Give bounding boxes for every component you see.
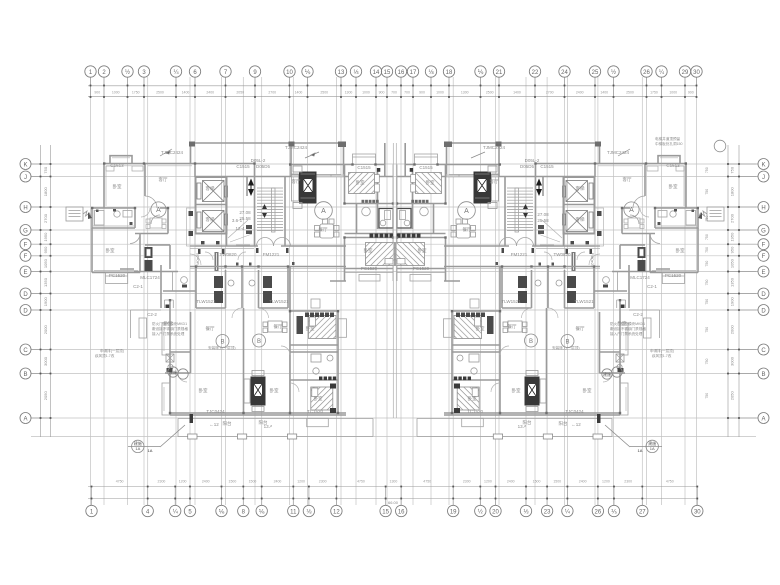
svg-text:C2-1: C2-1 — [647, 284, 657, 289]
wing interior walls — [190, 267, 346, 416]
svg-text:卧室: 卧室 — [106, 247, 115, 254]
kitchen fixtures bottom — [214, 276, 272, 303]
svg-text:13: 13 — [338, 70, 345, 76]
svg-text:1000: 1000 — [669, 91, 677, 95]
svg-text:2400: 2400 — [576, 91, 584, 95]
svg-text:15: 15 — [382, 510, 389, 516]
svg-text:900: 900 — [379, 91, 385, 95]
wing TV wardrobe dark — [251, 377, 266, 406]
svg-text:750: 750 — [43, 166, 48, 173]
svg-text:C1513: C1513 — [666, 163, 680, 168]
svg-text:4750: 4750 — [357, 480, 365, 484]
svg-text:卧室: 卧室 — [669, 183, 678, 190]
svg-text:中梯板处孔洞150: 中梯板处孔洞150 — [655, 141, 683, 146]
stair flight — [255, 164, 286, 247]
expansion joint — [393, 143, 396, 418]
svg-text:TLW1521: TLW1521 — [269, 299, 289, 304]
svg-text:66.00: 66.00 — [388, 500, 399, 505]
svg-text:1500: 1500 — [553, 480, 561, 484]
svg-text:11: 11 — [290, 510, 297, 516]
A1 kitchen fixtures — [145, 247, 153, 271]
svg-text:1500: 1500 — [533, 480, 541, 484]
svg-text:½: ½ — [611, 69, 616, 76]
svg-text:C1515: C1515 — [357, 165, 371, 170]
svg-text:1A: 1A — [135, 446, 140, 451]
svg-text:1750: 1750 — [132, 91, 140, 95]
svg-text:30: 30 — [693, 70, 700, 76]
entrance dark post — [190, 414, 194, 423]
svg-text:K: K — [23, 162, 27, 168]
A1 wardrobe top — [106, 166, 143, 171]
svg-text:19: 19 — [450, 510, 457, 516]
svg-text:E: E — [23, 270, 27, 276]
svg-text:F: F — [24, 254, 28, 260]
svg-text:卧室: 卧室 — [476, 325, 485, 332]
text labels layer — [106, 145, 685, 429]
apartment A1 outer walls — [104, 156, 255, 208]
svg-text:D05D5: D05D5 — [256, 164, 271, 169]
svg-text:卧室: 卧室 — [512, 387, 521, 394]
svg-text:900: 900 — [94, 91, 100, 95]
svg-text:1350: 1350 — [43, 277, 48, 287]
svg-text:1A: 1A — [638, 448, 643, 453]
svg-text:750: 750 — [705, 280, 709, 286]
svg-text:←12: ←12 — [209, 422, 219, 427]
svg-text:22: 22 — [532, 70, 539, 76]
svg-text:卧室: 卧室 — [426, 179, 435, 186]
svg-text:C1515: C1515 — [236, 164, 250, 169]
svg-text:1500: 1500 — [229, 480, 237, 484]
svg-text:卧室: 卧室 — [199, 387, 208, 394]
A circles (rings only) — [315, 202, 333, 220]
C1515 window band — [291, 174, 344, 177]
corridor door posts — [198, 248, 289, 254]
svg-text:750: 750 — [705, 327, 709, 333]
wing bathroom fixtures — [311, 354, 333, 374]
note blocks — [95, 136, 683, 358]
svg-text:15: 15 — [384, 70, 391, 76]
svg-text:TLW1521: TLW1521 — [501, 299, 521, 304]
bathroom A1 — [92, 208, 168, 234]
svg-text:27: 27 — [639, 510, 646, 516]
svg-text:3000: 3000 — [730, 356, 735, 366]
svg-text:A: A — [629, 207, 634, 214]
svg-text:2400: 2400 — [202, 480, 210, 484]
svg-text:2050: 2050 — [236, 91, 244, 95]
dimension bands — [41, 86, 740, 499]
svg-text:TJMC2424: TJMC2424 — [285, 145, 308, 150]
svg-text:⅙: ⅙ — [219, 510, 225, 516]
wing bed 1 — [309, 316, 337, 339]
vertical door labels — [195, 252, 595, 268]
svg-text:餐厅: 餐厅 — [508, 323, 517, 330]
svg-text:1750: 1750 — [650, 91, 658, 95]
A1 window bay lower — [106, 273, 128, 284]
svg-text:27.08: 27.08 — [239, 210, 251, 215]
svg-text:卧室: 卧室 — [113, 183, 122, 190]
svg-text:疾风顶1.7改: 疾风顶1.7改 — [95, 353, 115, 358]
svg-text:F: F — [24, 243, 28, 249]
svg-text:餐厅: 餐厅 — [576, 325, 585, 332]
svg-text:29: 29 — [682, 70, 689, 76]
svg-text:J: J — [24, 175, 27, 181]
svg-text:C1515: C1515 — [419, 165, 433, 170]
svg-text:客梯: 客梯 — [206, 216, 215, 223]
svg-text:900: 900 — [688, 91, 694, 95]
section arrows — [248, 179, 254, 197]
svg-text:1400: 1400 — [182, 91, 190, 95]
svg-text:950: 950 — [43, 246, 48, 253]
svg-text:安装施工(一层顶): 安装施工(一层顶) — [552, 345, 580, 350]
svg-text:C2-1: C2-1 — [133, 284, 143, 289]
svg-text:1000: 1000 — [112, 91, 120, 95]
svg-text:D: D — [761, 292, 766, 298]
svg-text:D: D — [23, 292, 28, 298]
svg-text:2000: 2000 — [730, 325, 735, 335]
svg-text:A: A — [321, 208, 326, 215]
svg-text:⅕: ⅕ — [611, 510, 617, 516]
svg-text:4750: 4750 — [666, 480, 674, 484]
svg-text:安装施工(一层顶): 安装施工(一层顶) — [208, 345, 236, 350]
svg-text:750: 750 — [705, 234, 709, 240]
svg-text:F: F — [762, 254, 766, 260]
svg-text:1900: 1900 — [730, 297, 735, 307]
svg-text:1000: 1000 — [436, 91, 444, 95]
svg-text:12-4: 12-4 — [235, 226, 245, 231]
svg-text:PC1520: PC1520 — [109, 273, 126, 278]
svg-text:2500: 2500 — [626, 91, 634, 95]
svg-text:2300: 2300 — [624, 480, 632, 484]
svg-text:FM1221: FM1221 — [511, 252, 528, 257]
svg-text:1800: 1800 — [730, 187, 735, 197]
svg-text:卧室: 卧室 — [270, 387, 279, 394]
svg-text:PC1520: PC1520 — [361, 266, 378, 271]
A2 door dark — [377, 168, 380, 172]
svg-text:敷设接不锈钢门禁规格: 敷设接不锈钢门禁规格 — [152, 326, 188, 331]
svg-text:客梯: 客梯 — [206, 185, 215, 192]
A2 bath fixtures — [362, 207, 371, 216]
svg-text:A: A — [156, 207, 161, 214]
A2 TV + sofa — [299, 172, 317, 204]
svg-text:防火门监控模块MKD1: 防火门监控模块MKD1 — [152, 321, 187, 326]
svg-text:1500: 1500 — [249, 480, 257, 484]
A2 top walls + balcony — [290, 143, 385, 204]
svg-text:餐厅: 餐厅 — [206, 325, 215, 332]
svg-text:750: 750 — [730, 166, 735, 173]
svg-text:F: F — [762, 243, 766, 249]
core top wall — [190, 143, 346, 177]
svg-text:TLW1521: TLW1521 — [196, 299, 216, 304]
svg-text:TW0820: TW0820 — [219, 252, 237, 257]
AC unit left — [66, 207, 92, 221]
svg-text:阳台: 阳台 — [559, 420, 568, 427]
svg-text:1A: 1A — [650, 446, 655, 451]
svg-text:D05L-2: D05L-2 — [525, 158, 540, 163]
svg-text:卧室: 卧室 — [314, 395, 323, 402]
svg-text:TW0820: TW0820 — [553, 252, 571, 257]
svg-text:H: H — [761, 205, 765, 211]
svg-text:D05L-2: D05L-2 — [251, 158, 266, 163]
svg-text:1800: 1800 — [43, 187, 48, 197]
svg-text:½: ½ — [478, 509, 483, 516]
grid bubbles — [20, 66, 769, 517]
svg-text:客梯: 客梯 — [576, 216, 585, 223]
svg-text:卧室: 卧室 — [306, 325, 315, 332]
svg-text:4750: 4750 — [116, 480, 124, 484]
svg-text:⅑: ⅑ — [305, 70, 311, 76]
svg-text:2700: 2700 — [268, 91, 276, 95]
svg-text:接入户门禁系统处理: 接入户门禁系统处理 — [610, 331, 643, 336]
lobby annotations — [246, 225, 252, 234]
svg-text:2500: 2500 — [320, 91, 328, 95]
svg-text:C2-2: C2-2 — [633, 312, 643, 317]
svg-text:防火门监控模块MKD1: 防火门监控模块MKD1 — [610, 321, 645, 326]
door arcs A1 — [130, 196, 160, 244]
A2 wardrobe row — [362, 200, 379, 204]
svg-text:C: C — [23, 348, 28, 354]
svg-text:1900: 1900 — [43, 297, 48, 307]
svg-text:750: 750 — [705, 167, 709, 173]
svg-text:餐厅: 餐厅 — [274, 323, 283, 330]
svg-text:2700: 2700 — [730, 213, 735, 223]
svg-text:G: G — [23, 228, 28, 234]
svg-text:750: 750 — [705, 247, 709, 253]
central bedroom — [330, 238, 393, 282]
svg-text:申请排(一层顶): 申请排(一层顶) — [100, 348, 124, 353]
circled notes — [128, 140, 726, 452]
svg-text:950: 950 — [730, 246, 735, 253]
lower wing outer walls — [170, 300, 346, 415]
svg-text:1050: 1050 — [730, 258, 735, 268]
corridor door wall dark — [215, 252, 219, 271]
living table A1 — [146, 218, 166, 229]
svg-text:客厅: 客厅 — [623, 176, 632, 183]
svg-text:A: A — [23, 416, 27, 422]
svg-text:卧室: 卧室 — [418, 247, 427, 254]
svg-text:750: 750 — [705, 299, 709, 305]
B circles (rings only) — [216, 335, 229, 348]
svg-text:B: B — [761, 372, 765, 378]
svg-text:C2-2: C2-2 — [147, 312, 157, 317]
svg-text:2300: 2300 — [158, 480, 166, 484]
svg-text:1300: 1300 — [461, 91, 469, 95]
svg-text:MLC1724: MLC1724 — [140, 275, 160, 280]
svg-text:17: 17 — [410, 70, 417, 76]
svg-text:24: 24 — [561, 70, 568, 76]
leader arrows — [160, 149, 630, 158]
core bottom wall + entrance doors — [190, 245, 346, 247]
svg-text:2400: 2400 — [274, 480, 282, 484]
svg-text:18: 18 — [446, 70, 453, 76]
svg-text:敷设接不锈钢门禁规格: 敷设接不锈钢门禁规格 — [610, 326, 646, 331]
svg-text:PC1520: PC1520 — [413, 266, 430, 271]
wing door arcs — [232, 308, 299, 392]
svg-text:20: 20 — [492, 510, 499, 516]
svg-text:TJMC2424: TJMC2424 — [161, 150, 184, 155]
svg-text:客梯: 客梯 — [576, 185, 585, 192]
svg-text:C1513: C1513 — [110, 163, 124, 168]
svg-text:申请排(一层顶): 申请排(一层顶) — [650, 348, 674, 353]
balcony — [178, 419, 373, 437]
junction columns — [91, 162, 394, 414]
bath lower-left — [165, 312, 191, 373]
svg-text:700: 700 — [391, 91, 397, 95]
A1 inner walls — [92, 164, 196, 309]
svg-text:FM0e25: FM0e25 — [590, 253, 595, 268]
svg-text:½: ½ — [125, 69, 130, 76]
svg-text:700: 700 — [404, 91, 410, 95]
svg-text:2300: 2300 — [463, 480, 471, 484]
svg-text:13↗: 13↗ — [518, 424, 527, 429]
svg-text:PC1520: PC1520 — [665, 273, 682, 278]
unit2 wing rooms — [290, 311, 338, 413]
svg-text:G: G — [761, 228, 766, 234]
svg-text:MLC1724: MLC1724 — [630, 275, 650, 280]
svg-text:客厅: 客厅 — [490, 178, 499, 185]
svg-text:14: 14 — [373, 70, 380, 76]
svg-text:1950: 1950 — [730, 232, 735, 242]
svg-text:2700: 2700 — [546, 91, 554, 95]
svg-text:TC1520: TC1520 — [467, 409, 484, 414]
svg-text:H: H — [23, 205, 27, 211]
svg-text:B: B — [220, 340, 224, 346]
svg-text:电梯井道顶预留: 电梯井道顶预留 — [655, 136, 681, 141]
svg-text:750: 750 — [705, 261, 709, 267]
svg-text:750: 750 — [705, 359, 709, 365]
svg-text:13↗: 13↗ — [264, 424, 273, 429]
svg-text:A: A — [464, 208, 469, 215]
svg-text:2500: 2500 — [156, 91, 164, 95]
svg-text:D: D — [23, 308, 28, 314]
svg-text:J: J — [762, 175, 765, 181]
svg-text:TJMC2424: TJMC2424 — [607, 150, 630, 155]
svg-text:←12: ←12 — [571, 422, 581, 427]
svg-text:K: K — [761, 162, 765, 168]
svg-text:2500: 2500 — [486, 91, 494, 95]
svg-text:TJMC2424: TJMC2424 — [483, 145, 506, 150]
svg-text:2700: 2700 — [43, 213, 48, 223]
svg-text:⅑: ⅑ — [478, 70, 484, 76]
svg-text:D: D — [761, 308, 766, 314]
svg-text:C1515: C1515 — [540, 164, 554, 169]
room type letters — [156, 207, 634, 215]
svg-text:1200: 1200 — [484, 480, 492, 484]
svg-text:2000: 2000 — [43, 325, 48, 335]
svg-text:E: E — [761, 270, 765, 276]
svg-text:30: 30 — [694, 510, 701, 516]
svg-text:2400: 2400 — [206, 91, 214, 95]
A2 bed (hatched) — [349, 173, 375, 194]
svg-text:21: 21 — [496, 70, 503, 76]
svg-text:C: C — [761, 348, 766, 354]
svg-text:26: 26 — [595, 510, 602, 516]
svg-text:1400: 1400 — [295, 91, 303, 95]
svg-text:26: 26 — [643, 70, 650, 76]
svg-text:1050: 1050 — [43, 258, 48, 268]
svg-text:1300: 1300 — [345, 91, 353, 95]
svg-text:2050: 2050 — [43, 391, 48, 401]
svg-text:900: 900 — [419, 91, 425, 95]
svg-text:D05D5: D05D5 — [520, 164, 535, 169]
entry pier — [131, 310, 162, 338]
bath2 A1 — [173, 267, 197, 292]
svg-text:TJC0424: TJC0424 — [565, 409, 584, 414]
svg-text:TJC0424: TJC0424 — [206, 409, 225, 414]
elevator shafts — [196, 177, 227, 234]
svg-text:B: B — [257, 339, 261, 345]
svg-text:疾风顶1.7改: 疾风顶1.7改 — [652, 353, 672, 358]
svg-text:27.08: 27.08 — [537, 212, 549, 217]
svg-text:B: B — [529, 339, 533, 345]
svg-text:16: 16 — [398, 510, 405, 516]
svg-text:1350: 1350 — [730, 277, 735, 287]
svg-text:2400: 2400 — [579, 480, 587, 484]
svg-text:2050: 2050 — [730, 391, 735, 401]
svg-text:750: 750 — [705, 393, 709, 399]
svg-text:餐厅: 餐厅 — [319, 226, 328, 233]
svg-text:接入户门禁系统处理: 接入户门禁系统处理 — [152, 331, 185, 336]
svg-text:1950: 1950 — [43, 232, 48, 242]
svg-text:3000: 3000 — [43, 356, 48, 366]
svg-text:23: 23 — [544, 510, 551, 516]
svg-text:1400: 1400 — [513, 91, 521, 95]
svg-text:10: 10 — [286, 70, 293, 76]
axis grid lines — [31, 77, 756, 505]
svg-text:2300: 2300 — [319, 480, 327, 484]
svg-text:TLW1521: TLW1521 — [574, 299, 594, 304]
svg-text:客厅: 客厅 — [292, 178, 301, 185]
svg-text:B: B — [565, 340, 569, 346]
svg-text:⅙: ⅙ — [259, 510, 265, 516]
svg-text:卧室: 卧室 — [676, 247, 685, 254]
svg-text:750: 750 — [705, 189, 709, 195]
svg-text:⅓: ⅓ — [523, 510, 528, 516]
svg-text:1200: 1200 — [179, 480, 187, 484]
entry door A1 — [164, 300, 173, 308]
svg-text:阳台: 阳台 — [223, 420, 232, 427]
svg-text:TC1520: TC1520 — [307, 409, 324, 414]
svg-text:16: 16 — [398, 70, 405, 76]
svg-text:3.6-1: 3.6-1 — [232, 218, 243, 223]
svg-text:1A: 1A — [148, 448, 153, 453]
svg-text:建施: 建施 — [603, 371, 611, 377]
svg-text:25.58: 25.58 — [537, 218, 549, 223]
riser marks — [189, 211, 194, 236]
svg-text:4750: 4750 — [423, 480, 431, 484]
svg-text:1400: 1400 — [600, 91, 608, 95]
svg-text:卧室: 卧室 — [583, 387, 592, 394]
dining table 2 — [263, 321, 287, 333]
svg-text:客厅: 客厅 — [159, 176, 168, 183]
svg-text:卧室: 卧室 — [364, 247, 373, 254]
wing bed 2 — [311, 387, 333, 410]
svg-text:B: B — [23, 372, 27, 378]
dining table — [315, 219, 340, 238]
svg-text:1000: 1000 — [362, 91, 370, 95]
svg-text:1200: 1200 — [602, 480, 610, 484]
svg-text:建施: 建施 — [169, 369, 177, 375]
svg-text:⅓: ⅓ — [353, 70, 358, 76]
svg-text:卧室: 卧室 — [468, 395, 477, 402]
svg-text:1200: 1200 — [297, 480, 305, 484]
svg-text:2400: 2400 — [507, 480, 515, 484]
svg-text:12: 12 — [333, 510, 340, 516]
svg-text:FM0e25: FM0e25 — [195, 252, 200, 267]
svg-text:FM1221: FM1221 — [263, 252, 280, 257]
svg-text:A: A — [761, 416, 765, 422]
svg-text:卧室: 卧室 — [356, 179, 365, 186]
svg-text:餐厅: 餐厅 — [463, 226, 472, 233]
